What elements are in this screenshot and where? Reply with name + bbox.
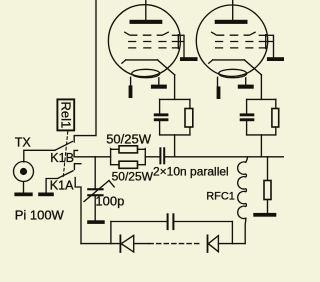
svg-text:RFC1: RFC1 — [206, 191, 235, 203]
svg-text:Rel1: Rel1 — [58, 102, 73, 129]
svg-text:K1A: K1A — [50, 179, 74, 193]
svg-text:50/25W: 50/25W — [112, 170, 154, 184]
svg-text:2×10n parallel: 2×10n parallel — [153, 165, 229, 179]
svg-text:Pi 100W: Pi 100W — [15, 207, 65, 222]
svg-text:K1B: K1B — [50, 151, 74, 165]
svg-text:TX: TX — [15, 135, 32, 149]
svg-text:100p: 100p — [95, 194, 124, 209]
svg-text:50/25W: 50/25W — [106, 131, 152, 146]
